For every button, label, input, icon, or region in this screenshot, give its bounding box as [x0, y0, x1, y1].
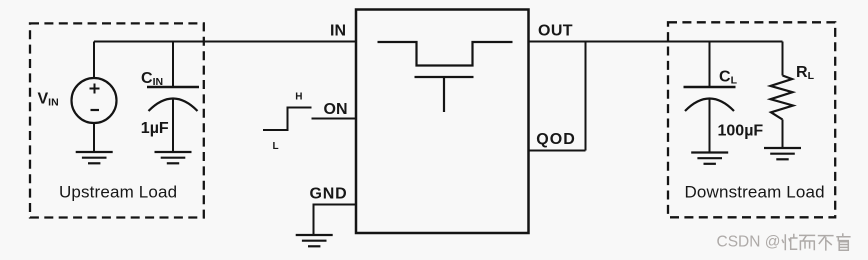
- svg-text:Downstream Load: Downstream Load: [685, 183, 825, 202]
- svg-text:CSDN @: CSDN @: [717, 234, 781, 251]
- glyph bu 不: [818, 236, 834, 251]
- svg-text:1µF: 1µF: [141, 120, 169, 137]
- wire QOD: [529, 150, 586, 152]
- ON control step waveform: [263, 108, 312, 131]
- capacitor CIN: [147, 87, 199, 111]
- svg-text:IN: IN: [330, 23, 346, 40]
- pass FET inside U1: [378, 42, 513, 112]
- voltage source VIN: [72, 78, 117, 123]
- svg-text:ON: ON: [324, 101, 348, 118]
- glyph er 而: [799, 235, 815, 250]
- downstream load dashed box: [668, 22, 835, 217]
- IC box U1: [356, 10, 529, 234]
- svg-text:L: L: [273, 141, 279, 152]
- svg-text:100µF: 100µF: [718, 122, 764, 139]
- resistor RL zigzag: [771, 76, 794, 120]
- wire CIN bottom stem: [172, 99, 174, 153]
- ground (CL): [691, 153, 728, 164]
- upstream load dashed box: [30, 23, 204, 217]
- glyph mang2 盲: [836, 233, 850, 250]
- wire OUT-QOD tie: [585, 42, 587, 151]
- ground (RL): [764, 148, 801, 159]
- ground (CIN): [155, 152, 192, 163]
- ground (VIN): [76, 152, 113, 163]
- ground (GND pin): [296, 235, 333, 246]
- wire VIN top stem: [93, 42, 95, 80]
- wire RL bottom stem: [782, 120, 784, 149]
- watermark CJK glyphs drawn as strokes: [782, 233, 851, 250]
- svg-text:H: H: [295, 91, 302, 102]
- svg-text:OUT: OUT: [538, 23, 573, 40]
- wire top rail left (VIN to IN pin): [94, 41, 356, 43]
- svg-text:GND: GND: [310, 186, 348, 203]
- svg-text:Upstream Load: Upstream Load: [59, 183, 177, 202]
- wire ON: [312, 118, 357, 120]
- svg-text:QOD: QOD: [536, 131, 575, 148]
- wire VIN bottom stem: [93, 123, 95, 153]
- wire CL bottom stem: [709, 99, 711, 153]
- capacitor CL: [684, 87, 736, 111]
- wire RL top stem: [782, 42, 784, 76]
- wire CIN top stem: [172, 42, 174, 88]
- wire OUT rail: [529, 41, 783, 43]
- glyph mang 忙: [782, 234, 798, 251]
- wire CL top stem: [709, 42, 711, 88]
- wire GND: [314, 205, 357, 236]
